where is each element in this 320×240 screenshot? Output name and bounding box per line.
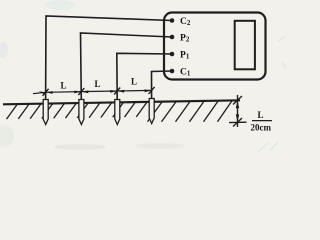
paper smudge left edge blue xyxy=(0,42,8,58)
paper smudge bottom-right cyan marks xyxy=(258,36,286,152)
terminal P2 xyxy=(170,35,175,40)
wire C1 to electrode E4 xyxy=(152,71,173,99)
wire C2 to electrode E1 xyxy=(46,16,172,100)
electrode E2 xyxy=(79,100,84,125)
dimension tick at E1 xyxy=(43,89,49,96)
background paper xyxy=(0,0,288,161)
paper smudge bottom-left green xyxy=(0,125,14,147)
electrode E1 xyxy=(43,100,48,125)
depth value fraction L/20cm xyxy=(251,110,273,132)
svg-text:C1: C1 xyxy=(180,68,191,78)
dimension tick at E4 xyxy=(149,87,155,94)
paper smudge top-left cyan xyxy=(45,0,75,10)
dimension segment L between E3 and E4 xyxy=(117,89,151,92)
earth hatching left of E4 xyxy=(7,102,147,119)
wire P1 to electrode E3 xyxy=(117,53,172,99)
paper smudge bottom center gray 2 xyxy=(135,143,185,149)
electrode E3 xyxy=(115,100,120,125)
svg-text:P1: P1 xyxy=(180,51,190,61)
dimension tick at E3 xyxy=(114,88,120,95)
meter window of M1 xyxy=(235,21,255,70)
paper smudge bottom center gray 1 xyxy=(54,144,106,150)
electrode E4 xyxy=(149,99,154,124)
terminal P1 xyxy=(170,52,175,57)
spacing dimension line lead-in left of E1 xyxy=(33,91,46,94)
svg-text:L: L xyxy=(258,110,264,120)
burial depth dimension line xyxy=(229,95,247,127)
svg-text:L: L xyxy=(131,77,137,87)
svg-text:20cm: 20cm xyxy=(251,122,272,132)
svg-text:L: L xyxy=(95,79,101,89)
svg-text:C2: C2 xyxy=(180,17,191,27)
earth hatching right of E4 (deep band) xyxy=(148,101,233,122)
dimension segment L between E2 and E3 xyxy=(81,90,117,93)
svg-text:L: L xyxy=(61,81,67,91)
terminal C2 xyxy=(170,18,175,23)
terminal C1 xyxy=(170,69,175,74)
wire P2 to electrode E2 xyxy=(81,33,173,100)
dimension segment L between E1 and E2 xyxy=(46,91,82,94)
svg-text:P2: P2 xyxy=(180,34,190,44)
dimension tick at E2 xyxy=(78,88,84,95)
ground surface line xyxy=(3,100,240,104)
earth tester M1 (instrument case) xyxy=(164,13,266,80)
